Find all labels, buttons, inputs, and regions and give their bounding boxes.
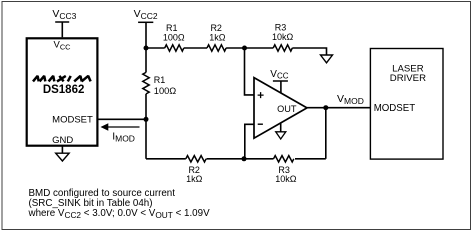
wire between R1 and R2	[184, 47, 207, 49]
svg-text:100Ω: 100Ω	[163, 33, 185, 43]
node R2/R3 junction	[242, 46, 247, 51]
wire VCC3 to VCC pin	[61, 22, 63, 37]
svg-text:10kΩ: 10kΩ	[275, 174, 297, 184]
svg-text:OUT: OUT	[277, 104, 297, 114]
wire bottom rail left	[146, 158, 186, 160]
wire GND pin	[61, 146, 63, 153]
op-amp plus sign	[258, 92, 264, 98]
arrow IMOD head	[101, 123, 109, 131]
wire bottom rail middle	[206, 158, 273, 160]
op-amp minus sign	[258, 123, 263, 125]
svg-text:R2: R2	[210, 23, 222, 33]
supply VCC op-amp bar	[273, 80, 288, 82]
supply VCC2 bar	[138, 21, 153, 23]
wire bottom rail right	[295, 158, 326, 160]
svg-text:GND: GND	[52, 135, 73, 146]
svg-text:1kΩ: 1kΩ	[186, 174, 203, 184]
logo MAXIM	[33, 76, 91, 82]
svg-text:1kΩ: 1kΩ	[209, 33, 226, 43]
resistor R2 1k (bottom)	[186, 156, 206, 162]
op-amp U2 triangle	[254, 78, 307, 139]
resistor R3 10k (bottom)	[274, 156, 294, 162]
svg-text:10kΩ: 10kΩ	[272, 32, 294, 42]
svg-text:MODSET: MODSET	[374, 103, 416, 114]
wire R2 to R3 with node	[226, 47, 273, 49]
svg-text:VCC: VCC	[270, 69, 288, 80]
wire op-amp to ground	[280, 123, 282, 132]
ground (top rail)	[321, 55, 333, 63]
wire IMOD arrow line	[106, 126, 140, 128]
node VMOD junction	[323, 105, 328, 110]
wire MODSET pin	[97, 118, 146, 120]
wire inverting input feed	[245, 124, 254, 159]
svg-text:100Ω: 100Ω	[154, 86, 177, 96]
svg-text:DRIVER: DRIVER	[390, 73, 426, 84]
wire R1 vertical down to bottom rail	[145, 94, 147, 159]
resistor R2 1k (top)	[207, 45, 226, 51]
svg-text:where VCC2 < 3.0V; 0.0V < VOUT: where VCC2 < 3.0V; 0.0V < VOUT < 1.09V	[28, 208, 211, 220]
wire op-amp output to laser driver	[307, 107, 370, 109]
svg-text:R1: R1	[154, 75, 166, 85]
wire R3 to ground	[292, 48, 326, 55]
svg-text:R1: R1	[166, 23, 178, 33]
wire noninverting input feed	[245, 48, 255, 95]
resistor R1 100ohm (vertical)	[143, 72, 149, 93]
node VCC2/R1 junction	[144, 46, 149, 51]
resistor R1 100ohm (top)	[165, 45, 184, 51]
wire feedback drop	[325, 108, 327, 159]
ground (op-amp)	[276, 132, 286, 139]
wire VCC bar to op-amp	[280, 81, 282, 93]
wire VCC2 down to top rail	[145, 22, 147, 48]
supply VCC3 bar	[55, 21, 69, 23]
wire down to R1 vertical	[145, 48, 147, 72]
laser driver box	[370, 49, 443, 160]
node inverting/feedback junction	[242, 156, 247, 161]
resistor R3 10k (top)	[273, 45, 292, 51]
ground (DS1862 GND)	[56, 153, 69, 161]
IC U1 DS1862 box	[27, 38, 98, 145]
svg-text:MODSET: MODSET	[52, 114, 93, 125]
svg-text:DS1862: DS1862	[43, 84, 85, 96]
wire top rail left	[146, 47, 165, 49]
node MODSET junction	[144, 117, 149, 122]
